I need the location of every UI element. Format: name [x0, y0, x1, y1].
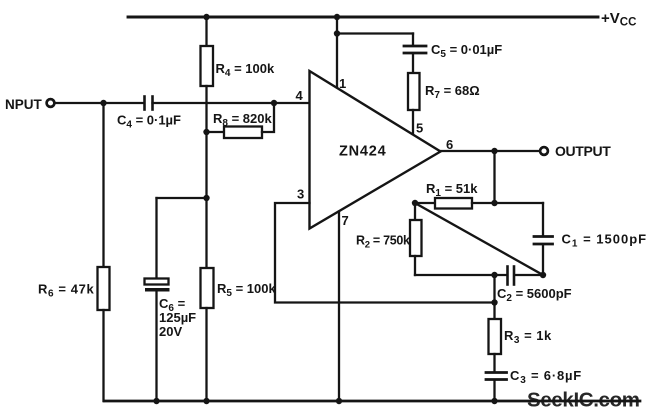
junction: R5 / ground	[203, 398, 209, 404]
resistor R3	[489, 319, 502, 354]
svg-text:R1 = 51k: R1 = 51k	[426, 181, 478, 199]
wire: pin 1 from rail	[336, 17, 338, 87]
wire: pin 6 output line	[441, 150, 541, 152]
junction: R8 tap on divider	[203, 129, 209, 135]
wire: R3 branch vertical	[493, 275, 495, 319]
junction: rail / R4	[203, 14, 209, 20]
capacitor C3	[486, 371, 507, 374]
+VCC power rail	[128, 16, 598, 19]
output terminal	[540, 147, 548, 155]
junction: rail / op-amp supply	[334, 14, 340, 20]
wire: output tap down to R1 line	[493, 151, 495, 203]
junction: pin 7 / ground	[336, 398, 342, 404]
svg-text:ZN424: ZN424	[339, 144, 387, 160]
resistor R2	[410, 220, 422, 256]
wire: C2 to C1 corner	[515, 274, 544, 276]
wire: R1 left lead	[415, 202, 435, 204]
wire: pin 7 down to ground	[338, 212, 340, 402]
junction: C5 branch	[334, 30, 340, 36]
wire: pin 3 net to lower feedback node	[275, 203, 495, 303]
junction: output feedback tap	[491, 148, 497, 154]
wire: C5 to R7	[412, 54, 414, 73]
wire: R7 to pin 5	[412, 110, 414, 134]
diagonal feedback wire (node A to C1/C2 corner)	[415, 203, 543, 275]
junction: pin-3 line meets R3 branch	[491, 299, 497, 305]
wire: R6 to ground corner	[102, 310, 105, 401]
svg-text:R2 = 750k: R2 = 750k	[356, 234, 410, 251]
junction: R6 branch on input line	[100, 100, 106, 106]
wire: rail to R4	[205, 17, 207, 46]
wire: C5 branch horizontal	[337, 32, 413, 34]
svg-text:OUTPUT: OUTPUT	[555, 143, 611, 159]
wire: R2 top lead	[414, 203, 416, 220]
svg-text:C2 = 5600pF: C2 = 5600pF	[497, 286, 572, 304]
wire: input terminal to C4	[55, 102, 145, 104]
wire: R3 to C3	[493, 354, 495, 372]
svg-text:6: 6	[446, 137, 453, 152]
svg-text:5: 5	[416, 121, 423, 136]
wire: C6 top lead	[155, 198, 157, 279]
capacitor C5	[404, 45, 426, 48]
wire: C1 bottom lead	[542, 245, 544, 275]
capacitor C2	[506, 267, 509, 285]
resistor R7	[408, 73, 420, 110]
svg-text:SeekIC.com: SeekIC.com	[527, 389, 640, 412]
svg-text:C1 = 1500pF: C1 = 1500pF	[562, 232, 648, 250]
svg-text:C5 = 0·01µF: C5 = 0·01µF	[431, 42, 502, 60]
wire: R4 to R8 junction (crosses input line)	[205, 86, 207, 132]
wire: R8 left lead	[207, 131, 225, 133]
wire: R2 bottom lead	[414, 256, 416, 275]
svg-text:3: 3	[297, 187, 304, 202]
junction: feedback tap on R1 line	[491, 200, 497, 206]
capacitor C4	[143, 97, 146, 110]
resistor R6	[98, 267, 110, 310]
wire: R1 right lead to C1 corner	[472, 202, 543, 204]
resistor R4	[201, 46, 214, 86]
ground / common rail	[104, 400, 640, 403]
svg-text:R5 = 100k: R5 = 100k	[217, 281, 276, 299]
svg-text:7: 7	[342, 213, 349, 228]
input terminal	[47, 99, 55, 107]
svg-text:+VCC: +VCC	[601, 10, 636, 29]
junction: C3 / ground	[491, 398, 497, 404]
svg-text:R6 = 47k: R6 = 47k	[38, 282, 94, 300]
wire: divider vertical down to R5	[205, 132, 207, 268]
wire: R8 right lead up to pin-4 node	[262, 103, 274, 132]
svg-text:R3 = 1k: R3 = 1k	[504, 328, 552, 346]
wire: R5 to ground rail	[205, 308, 207, 401]
junction: R8 to pin-4 wire	[271, 100, 277, 106]
svg-text:R4 = 100k: R4 = 100k	[216, 61, 275, 79]
resistor R8	[224, 127, 262, 139]
svg-text:NPUT: NPUT	[5, 97, 43, 112]
svg-text:20V: 20V	[159, 324, 182, 339]
wire: C3 to ground	[493, 381, 495, 402]
junction: node A (R1 / R2 / diagonal)	[412, 200, 418, 206]
svg-text:R7 = 68Ω: R7 = 68Ω	[425, 83, 480, 101]
wire: C1 top lead	[542, 203, 544, 235]
wire: C6 branch horizontal	[157, 197, 207, 199]
wire: lower feedback line (R2 to C2)	[415, 274, 507, 276]
resistor R5	[201, 268, 214, 308]
junction: C6 branch	[203, 195, 209, 201]
capacitor C6 (electrolytic, boxed top plate)	[145, 279, 169, 285]
wire: C6 bottom lead to ground	[155, 292, 157, 402]
resistor R1	[435, 198, 472, 209]
junction: C1/C2/diagonal corner	[540, 272, 546, 278]
op-amp U1 ZN424	[310, 71, 441, 229]
svg-text:C4 = 0·1µF: C4 = 0·1µF	[117, 113, 181, 131]
wire: R6 vertical (input node down)	[102, 103, 104, 267]
svg-text:4: 4	[296, 88, 304, 103]
wire: C5 top lead	[412, 34, 414, 46]
svg-text:125µF: 125µF	[159, 310, 196, 325]
junction: R3 tap on feedback line	[491, 272, 497, 278]
capacitor C1	[534, 235, 553, 238]
svg-text:C3 = 6·8µF: C3 = 6·8µF	[510, 368, 582, 386]
svg-text:1: 1	[339, 76, 346, 91]
junction: C6 / ground	[153, 398, 159, 404]
wire: C4 to op-amp pin 4	[153, 102, 310, 104]
